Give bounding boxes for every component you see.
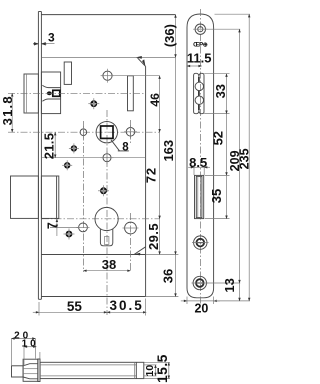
dimension 38 (83, 257, 130, 272)
right dim column B: 46 / 72 / 29.5 (148, 76, 162, 133)
faceplate (edge view, vertical strip) (38, 12, 41, 300)
latch opening bold center segments (198, 77, 200, 110)
small hole left of hub (80, 129, 87, 136)
cylinder centerline (42, 218, 160, 220)
dimension 21.5 (42, 132, 57, 159)
vertical centerline right circles column (top) (130, 120, 132, 144)
right dim column C: (36) / 163 / 36 (162, 15, 177, 58)
latch bevel lines (23, 364, 38, 379)
vertical centerline through hub and cylinder (106, 110, 108, 315)
circle right of cylinder (125, 222, 137, 234)
svg-text:55: 55 (67, 299, 83, 314)
latch guide block (23, 359, 38, 381)
svg-text:7: 7 (45, 222, 59, 229)
plate top screw hole (193, 24, 207, 34)
dimension 31.8 (0, 93, 15, 132)
dimension 30.5 (107, 298, 146, 315)
hub square 8mm (bold) (101, 126, 113, 138)
svg-text:3: 3 (48, 30, 55, 44)
dimension 3 (faceplate thickness) (33, 30, 55, 44)
dimension 10 (bottom view) (22, 338, 40, 366)
small hole left of cylinder (79, 223, 88, 232)
plate vertical centerline (199, 9, 201, 306)
svg-text:163: 163 (161, 140, 176, 162)
svg-text:21.5: 21.5 (42, 133, 57, 160)
deadbolt opening inner (196, 176, 202, 217)
case bottom extension to dim 36 (146, 296, 179, 298)
dimension 35 (205, 175, 230, 218)
dimension 33 (204, 74, 229, 114)
deadbolt opening (outer) (195, 175, 204, 218)
svg-text:13: 13 (222, 278, 237, 292)
svg-text:29.5: 29.5 (146, 223, 161, 250)
latch opening circles (195, 82, 203, 90)
svg-text:20: 20 (194, 302, 208, 316)
top-right diagonal hook (138, 58, 146, 66)
hole below hub (103, 154, 111, 162)
latch bolt protruding (left of faceplate) (24, 74, 38, 113)
phillips screw E (64, 229, 75, 240)
svg-text:8: 8 (122, 141, 129, 153)
hub circle (96, 122, 117, 143)
case body bar (40, 362, 144, 378)
svg-text:(36): (36) (162, 24, 177, 47)
deadbolt protruding (11, 176, 39, 218)
case internal top line extended (extension line y57) (42, 56, 176, 58)
deadbolt inner bolt lines (197, 176, 199, 217)
svg-text:36: 36 (161, 269, 176, 283)
vertical centerline left holes column (82, 121, 84, 272)
svg-text:235: 235 (238, 148, 252, 169)
phillips screw A (88, 98, 99, 109)
case outline (41, 15, 175, 297)
case internal line y254 (41, 254, 145, 256)
slot hole (tall, left-center) (64, 62, 71, 84)
faceplate end-on (dark band) (38, 359, 40, 382)
extension line from screw hole to dim 46 (114, 75, 159, 77)
phillips screw D (98, 185, 109, 196)
svg-text:11.5: 11.5 (187, 51, 212, 66)
svg-text:31.8: 31.8 (0, 95, 15, 125)
dimension 235 column (215, 14, 252, 301)
dimension 55 (33, 299, 107, 316)
latch head inside case (41, 72, 60, 114)
leader to label 8 (111, 140, 120, 151)
dimension 52 (211, 114, 227, 176)
svg-text:33: 33 (213, 84, 228, 98)
slot hole (tall, right side) (128, 76, 134, 111)
svg-text:38: 38 (102, 257, 116, 272)
dimension 209 and 13 column (206, 29, 250, 301)
arrow on y57 line (136, 56, 142, 59)
latch tip block (12, 366, 24, 377)
faceplate plate outline (rounded ends) (187, 14, 214, 298)
svg-text:30.5: 30.5 (109, 298, 143, 313)
deadbolt body inside case (41, 176, 58, 218)
euro cylinder profile (95, 207, 118, 245)
dimension 20 (plate width) (181, 297, 220, 316)
vertical centerline right circles column (bottom) (130, 213, 132, 272)
svg-text:10: 10 (22, 338, 39, 349)
small circle right of hub (124, 125, 137, 138)
dimension 7 (45, 219, 79, 236)
latch centerline (8, 92, 146, 94)
svg-text:35: 35 (209, 189, 224, 203)
latch opening (outer, notched rectangle) (194, 73, 204, 113)
hub centerline (8, 131, 160, 133)
phillips screw C (62, 160, 72, 170)
plate mid screw hole (192, 236, 209, 249)
dimension 11.5 (187, 51, 212, 66)
lower hole line y157 (42, 157, 146, 159)
dimension 10 (bar inner height) (144, 365, 157, 377)
latch spring pin (black dot) (47, 91, 52, 95)
bottom-right diagonal hook (134, 247, 145, 255)
latch small bold box (53, 90, 60, 96)
svg-text:8.5: 8.5 (189, 155, 207, 170)
svg-text:ŒP⊕: ŒP⊕ (193, 42, 208, 49)
dimension 20 (bottom view) (11, 331, 35, 366)
top screw hole with crosshair (101, 69, 115, 83)
plate bottom screw hole (192, 276, 209, 289)
svg-text:46: 46 (148, 93, 162, 107)
phillips screw B (69, 143, 79, 153)
svg-text:72: 72 (144, 167, 159, 183)
dimension 15.5 (bar outer height) (144, 354, 170, 383)
svg-text:15.5: 15.5 (154, 354, 170, 383)
svg-text:52: 52 (211, 131, 226, 145)
dimension 8.5 (188, 155, 210, 175)
